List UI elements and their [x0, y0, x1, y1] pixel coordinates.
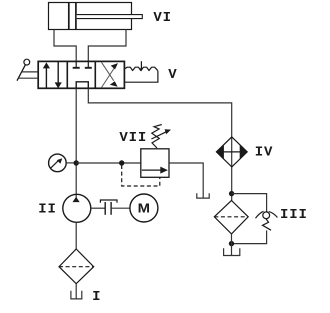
valve V left position down arrow [57, 61, 59, 82]
valve V centre position blocked port A [73, 61, 92, 88]
wire cylinder left port to valve port A [54, 30, 76, 62]
wire pump to filter I [75, 223, 77, 250]
junction node below III [229, 241, 234, 246]
svg-text:II: II [38, 202, 57, 218]
svg-text:III: III [280, 207, 308, 223]
valve V centre position blocked port B [87, 61, 89, 67]
valve V body [38, 61, 124, 88]
valve V divider left [66, 61, 68, 88]
coupling left bar [104, 202, 106, 215]
tank below III [224, 248, 240, 255]
svg-text:M: M [138, 200, 150, 215]
bypass valve circle [263, 212, 270, 219]
pressure gauge needle [51, 160, 59, 168]
valve V centre position P-T bridge [76, 82, 88, 89]
valve V spring [124, 67, 157, 82]
valve V lever arm [17, 65, 26, 81]
relief valve VII adjust arrow [151, 132, 166, 139]
svg-text:V: V [168, 67, 177, 83]
wire T: valve to cooler IV [88, 88, 231, 200]
junction node pilot tap [119, 160, 124, 165]
relief valve VII body [141, 149, 169, 178]
valve V lever link top [22, 71, 39, 73]
valve V left position up arrow [43, 61, 62, 88]
valve V divider right [94, 61, 96, 88]
filter I diamond [59, 249, 94, 284]
wire gauge to junction [66, 162, 76, 164]
cooler IV right filled triangle [240, 144, 248, 159]
valve V spring down arrow [140, 61, 143, 71]
cooler IV horizontal line [216, 151, 247, 153]
bypass valve right wing arc [269, 212, 278, 218]
junction node at gauge [74, 160, 79, 165]
wire III to tank [231, 234, 233, 256]
pump II circle [63, 194, 91, 222]
filter III diamond [214, 201, 248, 234]
relief valve VII flow arrow [142, 169, 161, 171]
wire pressure line to relief valve VII [76, 162, 141, 164]
cooler IV left filled triangle [216, 144, 224, 159]
wire filter I to tank [75, 284, 77, 299]
svg-text:I: I [92, 289, 101, 305]
bypass valve left wing arc [256, 211, 264, 218]
relief valve VII spring [152, 125, 162, 149]
cylinder VI piston [68, 3, 70, 30]
wire bypass bottom [232, 230, 267, 243]
junction node above III [229, 191, 234, 196]
wire P: valve to pump vertical [75, 88, 77, 197]
valve V lever link bottom [18, 77, 38, 79]
pump II outlet triangle [73, 197, 80, 202]
valve V lever handle circle [24, 59, 30, 65]
cooler IV diamond [216, 137, 247, 167]
wire bypass top [232, 194, 267, 212]
tank below filter I [71, 291, 82, 299]
wire cylinder right port to valve port B [88, 30, 126, 62]
filter III dashed element [214, 216, 248, 218]
svg-text:VII: VII [119, 130, 147, 146]
cylinder VI body [49, 3, 132, 30]
svg-text:VI: VI [153, 10, 172, 26]
pressure gauge [49, 154, 67, 172]
svg-text:IV: IV [255, 144, 274, 160]
valve V right position crossed arrows [102, 62, 119, 87]
filter I dashed element [59, 266, 94, 268]
tank at VII outlet [197, 193, 209, 198]
wire VII outlet to tank [169, 163, 203, 198]
shaft pump to coupling [91, 207, 105, 209]
motor circle [130, 194, 158, 222]
bypass valve spring zigzag [263, 219, 272, 231]
relief valve VII pilot line (dashed) [122, 165, 160, 186]
cylinder VI rod [77, 15, 143, 19]
shaft coupling to motor [111, 207, 130, 209]
coupling right bar [110, 202, 112, 215]
coupling bracket [100, 200, 117, 203]
